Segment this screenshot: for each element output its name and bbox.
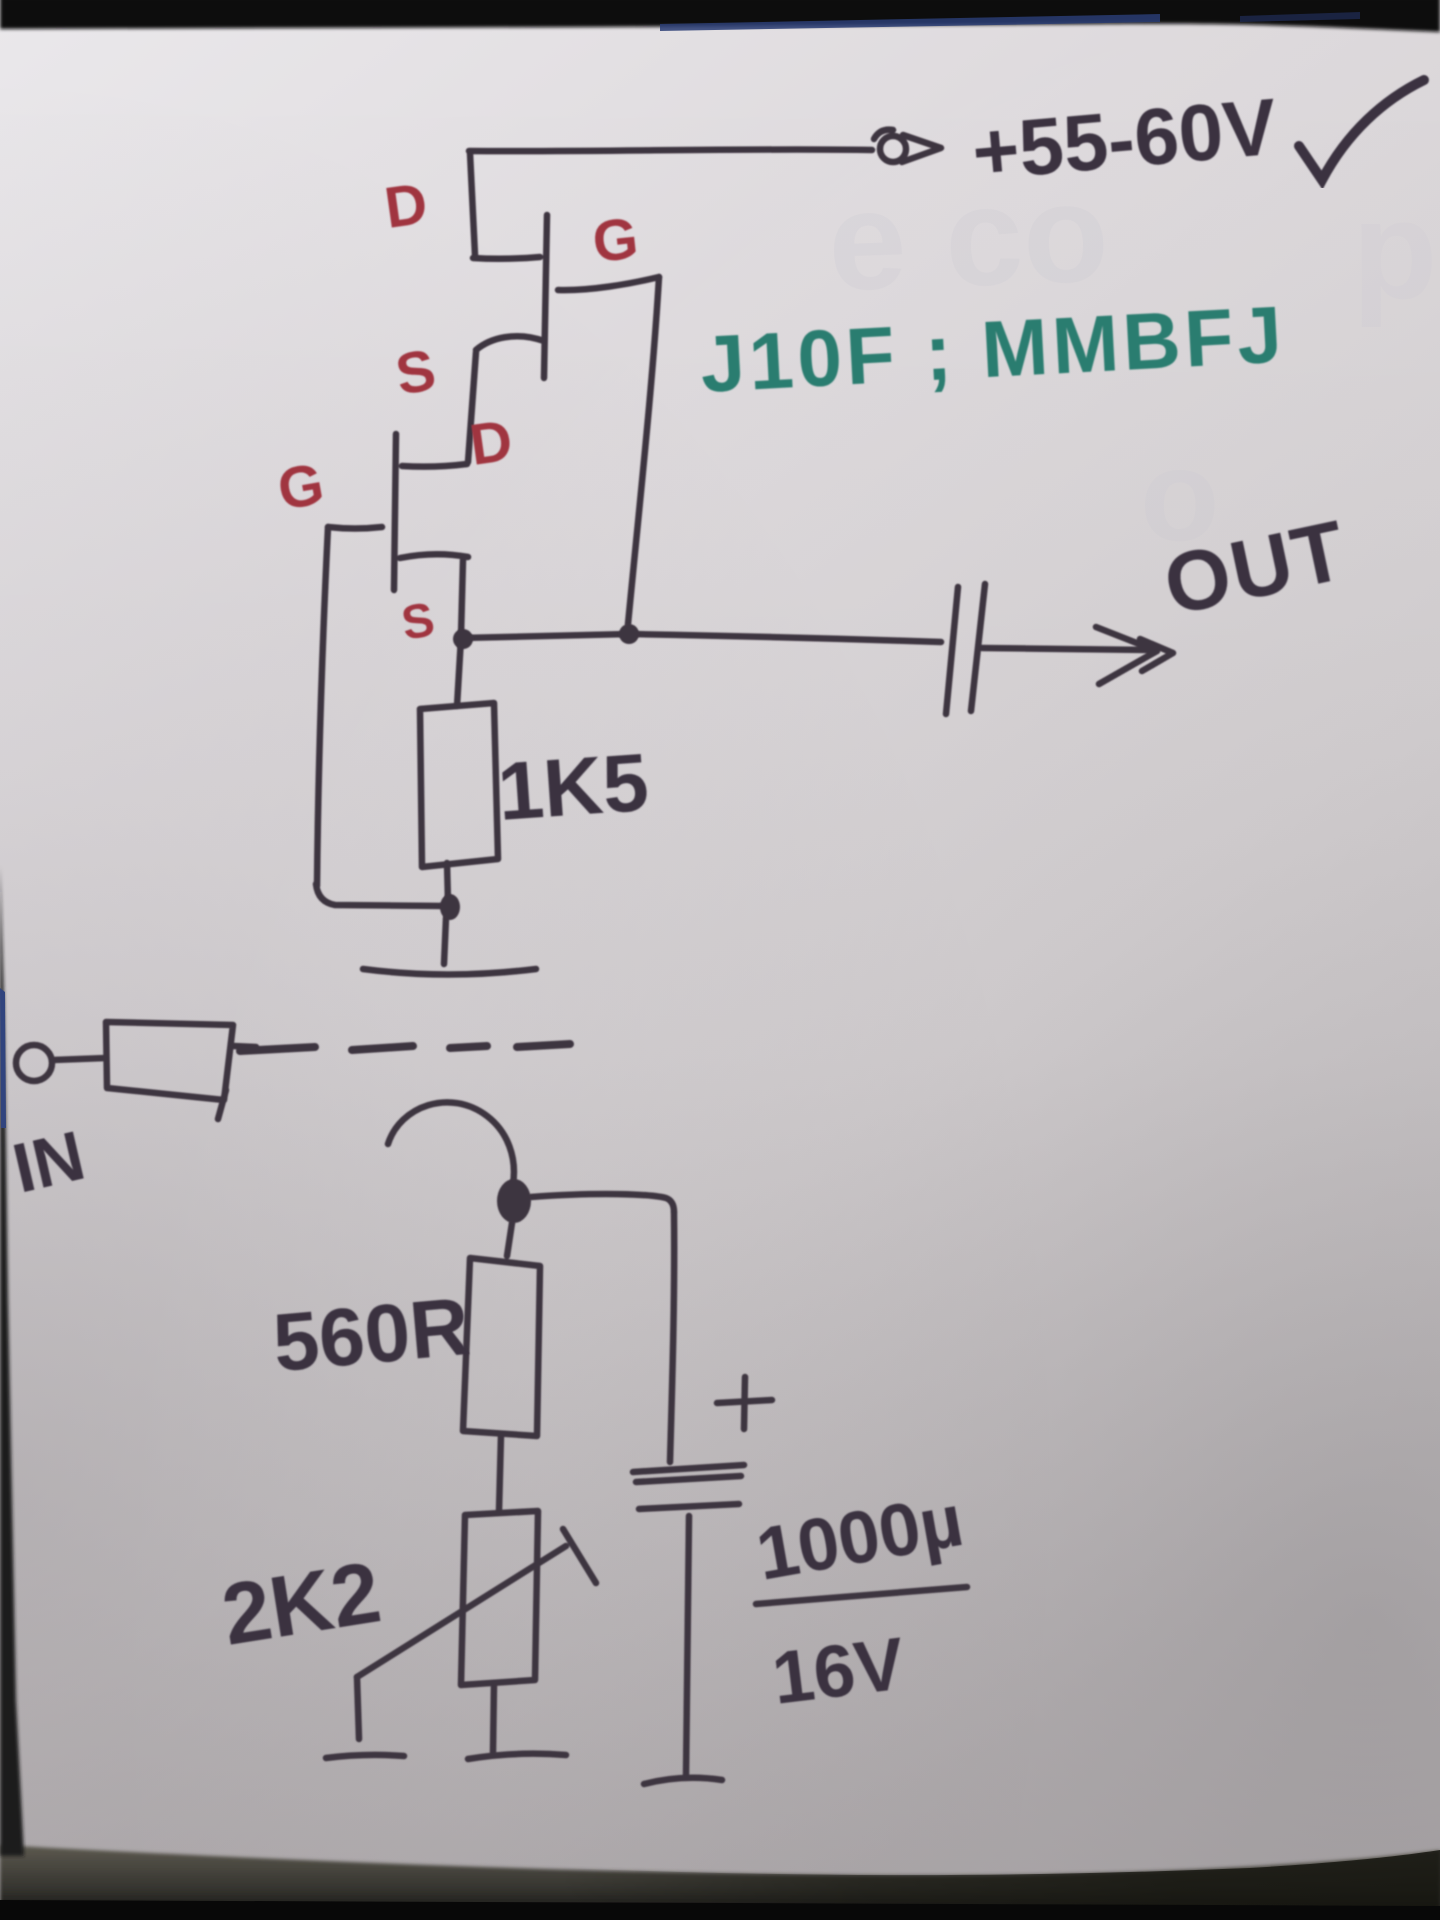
- svg-text:560R: 560R: [270, 1281, 473, 1389]
- svg-text:D: D: [466, 408, 517, 478]
- svg-text:16V: 16V: [768, 1621, 909, 1719]
- svg-text:D: D: [381, 171, 432, 241]
- svg-text:p: p: [1352, 171, 1438, 328]
- svg-text:1K5: 1K5: [495, 737, 651, 838]
- svg-text:G: G: [590, 206, 642, 275]
